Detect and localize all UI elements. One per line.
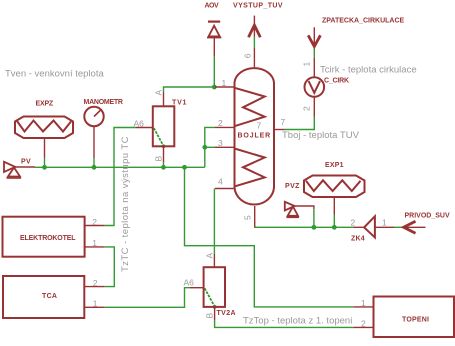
svg-text:3: 3 bbox=[218, 138, 223, 148]
svg-text:EXPZ: EXPZ bbox=[36, 101, 54, 108]
svg-text:1: 1 bbox=[92, 238, 97, 248]
svg-text:A: A bbox=[154, 90, 164, 96]
svg-text:PVZ: PVZ bbox=[285, 183, 300, 190]
svg-text:1: 1 bbox=[222, 78, 227, 88]
svg-text:4: 4 bbox=[218, 177, 223, 187]
svg-text:1: 1 bbox=[382, 218, 387, 228]
svg-text:2: 2 bbox=[351, 218, 356, 228]
svg-text:2: 2 bbox=[92, 217, 97, 227]
svg-text:EXP1: EXP1 bbox=[325, 162, 344, 169]
svg-text:BOJLER: BOJLER bbox=[238, 133, 272, 140]
svg-text:TV1: TV1 bbox=[172, 100, 187, 107]
svg-text:TzTC - teplota na výstupu TC: TzTC - teplota na výstupu TC bbox=[120, 136, 131, 272]
svg-text:ELEKTROKOTEL: ELEKTROKOTEL bbox=[20, 235, 76, 242]
svg-text:PV: PV bbox=[21, 159, 31, 166]
svg-text:2: 2 bbox=[302, 106, 312, 111]
svg-text:1: 1 bbox=[93, 299, 98, 309]
svg-text:A: A bbox=[205, 253, 215, 259]
svg-text:ZPATECKA_CIRKULACE: ZPATECKA_CIRKULACE bbox=[322, 18, 405, 25]
svg-text:7: 7 bbox=[281, 117, 286, 127]
svg-text:TOPENI: TOPENI bbox=[402, 317, 429, 324]
svg-text:6: 6 bbox=[243, 53, 253, 58]
svg-text:TzTop - teplota z 1. topeni: TzTop - teplota z 1. topeni bbox=[243, 316, 352, 327]
svg-text:2: 2 bbox=[218, 118, 223, 128]
svg-text:TCA: TCA bbox=[42, 293, 57, 300]
svg-text:1: 1 bbox=[361, 298, 366, 308]
svg-text:C_CIRK: C_CIRK bbox=[324, 78, 349, 85]
svg-text:5: 5 bbox=[243, 215, 253, 220]
svg-text:AOV: AOV bbox=[205, 3, 220, 10]
svg-text:7: 7 bbox=[257, 121, 262, 131]
svg-text:Tboj - teplota TUV: Tboj - teplota TUV bbox=[282, 130, 360, 141]
svg-text:A6: A6 bbox=[134, 119, 145, 129]
svg-text:TV2A: TV2A bbox=[217, 310, 237, 317]
svg-text:PRIVOD_SUV: PRIVOD_SUV bbox=[405, 213, 450, 220]
svg-text:A6: A6 bbox=[184, 278, 195, 288]
svg-text:B: B bbox=[154, 156, 164, 162]
svg-text:VYSTUP_TUV: VYSTUP_TUV bbox=[233, 3, 283, 10]
svg-text:1: 1 bbox=[302, 62, 312, 67]
svg-text:2: 2 bbox=[361, 319, 366, 329]
svg-text:MANOMETR: MANOMETR bbox=[84, 99, 123, 106]
svg-text:Tcirk - teplota cirkulace: Tcirk - teplota cirkulace bbox=[320, 65, 417, 76]
svg-text:Tven - venkovní teplota: Tven - venkovní teplota bbox=[5, 69, 104, 80]
svg-text:ZK4: ZK4 bbox=[351, 236, 365, 243]
svg-text:B: B bbox=[205, 313, 215, 319]
svg-text:2: 2 bbox=[93, 278, 98, 288]
